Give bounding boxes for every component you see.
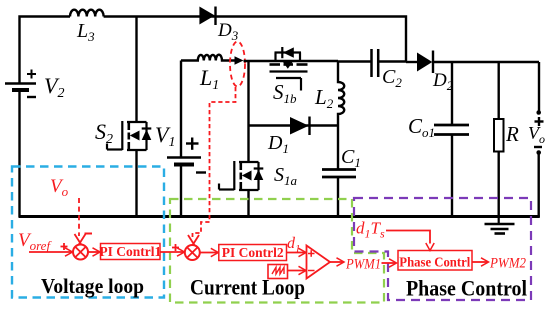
svg-text:R: R [505, 122, 519, 146]
wire PWM1 to phase [382, 262, 397, 264]
diode D2 [406, 61, 417, 63]
wire summer1 to PI1 [88, 251, 100, 253]
inductor L1 [181, 55, 235, 61]
wire second rail [244, 60, 339, 62]
resistor R [498, 62, 500, 119]
box voltage loop [12, 167, 164, 298]
wire Vo sense dashed [78, 198, 80, 236]
wire sawtooth to comparator [288, 270, 306, 272]
transistor S1a [219, 161, 263, 191]
battery V2 [5, 70, 64, 102]
transistor S2 [107, 121, 151, 151]
diode D1 [290, 117, 309, 135]
wire top rail [20, 17, 407, 84]
capacitor C1 [337, 126, 339, 170]
wire V2 to bottom [18, 90, 20, 217]
capacitor Co1 [451, 62, 453, 125]
inductor L2 [338, 61, 344, 126]
wire PI2 to comparator [287, 252, 306, 254]
wire phase out [473, 261, 489, 263]
sawtooth generator [268, 265, 288, 279]
wire S1a to bottom [247, 190, 249, 217]
current sensor ellipse [230, 42, 245, 87]
ground [485, 217, 515, 234]
summer 1 [73, 245, 88, 260]
svg-text:PWM2: PWM2 [489, 256, 526, 272]
block PI Contrl1 [101, 244, 161, 260]
summer 2 [185, 245, 200, 260]
inductor L3 [70, 10, 104, 17]
wire d1Ts to phase [386, 231, 430, 244]
wire PI1 to summer2 [160, 251, 184, 253]
svg-text:Phase Control: Phase Control [406, 276, 527, 301]
svg-text:PWM1: PWM1 [345, 257, 381, 273]
output terminal Vo [538, 62, 540, 112]
op-amp comparator [307, 246, 331, 279]
wire summer2 to PI2 [200, 252, 218, 254]
wire S2 branch [135, 17, 137, 123]
capacitor C2 [338, 60, 372, 62]
battery V1 [155, 122, 206, 173]
wire Voref in [29, 251, 72, 253]
wire D1 row [249, 124, 339, 126]
svg-text:PI Contrl2: PI Contrl2 [222, 245, 284, 260]
wire bottom rail [19, 215, 540, 218]
box phase control [354, 198, 531, 300]
wire output rail [433, 61, 539, 63]
block Phase Contrl [398, 251, 472, 271]
wire current sense dashed [193, 87, 236, 237]
wire comparator out [330, 261, 344, 263]
block PI Contrl2 [219, 245, 287, 261]
box current loop [170, 199, 384, 303]
svg-text:Current Loop: Current Loop [190, 275, 305, 300]
wire V1 branch [180, 61, 182, 158]
svg-text:PI Contrl1: PI Contrl1 [99, 244, 161, 259]
svg-text:Voltage loop: Voltage loop [41, 274, 144, 298]
transistor S1b [270, 47, 308, 91]
svg-text:Phase Contrl: Phase Contrl [399, 256, 470, 271]
diode D3 [199, 7, 238, 44]
